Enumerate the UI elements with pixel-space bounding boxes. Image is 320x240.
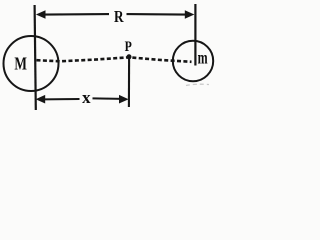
svg-text:x: x <box>82 88 91 107</box>
svg-text:R: R <box>114 7 124 26</box>
svg-text:m: m <box>198 47 208 67</box>
svg-text:P: P <box>125 38 132 55</box>
svg-text:M: M <box>14 54 27 74</box>
